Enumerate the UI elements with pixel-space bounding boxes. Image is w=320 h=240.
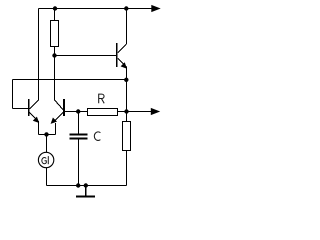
junction dot node C (output) — [124, 109, 128, 113]
wire Q2 base lead to node B — [65, 111, 88, 113]
wire common emitter rail — [39, 134, 56, 136]
wire bottom rail — [47, 185, 127, 187]
label Gl — [42, 156, 48, 164]
junction dot ground tap — [84, 183, 88, 187]
wire feedback from output emitter to Q1 base — [13, 79, 127, 81]
wire Q1 base lead — [13, 108, 28, 110]
arrow output middle — [151, 108, 160, 115]
wire capacitor top stub — [78, 112, 80, 135]
ground stem — [85, 186, 87, 196]
wire feedback left drop — [12, 80, 14, 109]
arrow output top — [151, 5, 160, 12]
wire Q2 emitter drop — [55, 123, 57, 135]
resistor R (horizontal) — [88, 109, 118, 116]
junction dot node A (R1 bottom / Q2 collector) — [52, 53, 56, 57]
resistor R1 (top left, vertical) — [51, 21, 59, 47]
wire Q3 emitter vertical down to node C — [126, 67, 128, 112]
junction dot node B (Q2 base / R / C) — [76, 109, 80, 113]
transistor Q2 (diff pair right, mirrored) — [51, 99, 65, 124]
wire capacitor bottom stub — [78, 139, 80, 186]
capacitor C plates — [70, 135, 88, 139]
resistor R2 (right, vertical) — [123, 122, 131, 151]
junction dot capacitor bottom — [76, 183, 80, 187]
junction dot feedback / Q3 emitter — [124, 78, 128, 82]
junction dot top rail / Q3 collector — [124, 6, 128, 10]
wire R right stub to node C — [117, 111, 126, 113]
wire Q3 collector vertical to top rail — [126, 9, 128, 45]
wire R2 top stub — [126, 112, 128, 122]
current source Gl circle — [38, 152, 53, 167]
wire R2 bottom stub — [126, 151, 128, 186]
wire R1 top stub — [54, 9, 56, 21]
wire current source top stub — [46, 135, 48, 153]
transistor Q3 (output, top right) — [116, 43, 127, 68]
wire Q2 collector vertical — [54, 56, 56, 100]
ground bar — [76, 196, 95, 198]
transistor Q1 (diff pair left) — [28, 99, 39, 123]
wire output line at node C — [127, 111, 153, 113]
label C — [94, 132, 100, 141]
wire node A to Q3 base — [55, 55, 116, 57]
wire R1 bottom stub — [54, 47, 56, 56]
wire Q1 collector vertical to top rail — [38, 9, 40, 101]
wire Q1 emitter drop — [38, 121, 40, 135]
wire top supply rail — [39, 8, 153, 10]
wire current source bottom stub — [46, 168, 48, 186]
junction dot top rail / R1 — [53, 6, 57, 10]
junction dot common emitters — [44, 132, 48, 136]
label R — [99, 94, 105, 103]
